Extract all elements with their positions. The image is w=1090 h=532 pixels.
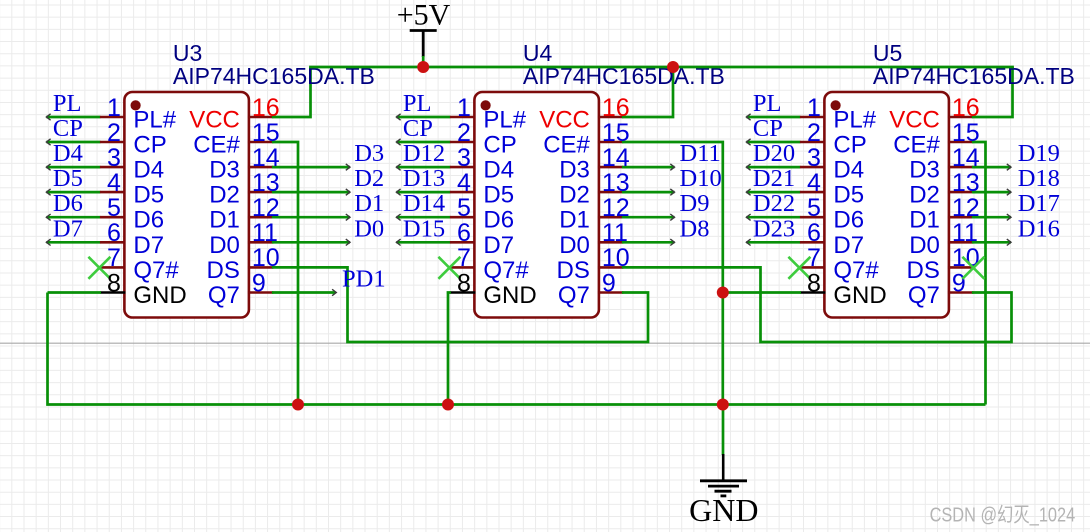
pin stub U4.12 <box>598 216 624 219</box>
pin stub U5.5 <box>800 216 826 219</box>
svg-text:D6: D6 <box>133 207 164 234</box>
pin stub U3.11 <box>248 241 274 244</box>
svg-text:D4: D4 <box>483 157 514 184</box>
svg-text:Q7: Q7 <box>208 282 240 309</box>
svg-text:15: 15 <box>952 119 980 147</box>
svg-text:VCC: VCC <box>889 107 940 134</box>
wire U3 CE# to ground rail <box>272 142 298 405</box>
pin stub U5.7 Q7# <box>800 266 826 269</box>
svg-text:D0: D0 <box>559 232 590 259</box>
svg-text:D2: D2 <box>909 182 940 209</box>
pin stub U3.3 <box>100 166 126 169</box>
svg-text:CSDN @幻灭_1024: CSDN @幻灭_1024 <box>930 503 1076 526</box>
pin stub U4.15 CE# <box>598 141 624 144</box>
svg-text:12: 12 <box>252 194 280 222</box>
pin stub U5.6 <box>800 241 826 244</box>
svg-text:4: 4 <box>807 169 821 197</box>
pin stub U4.10 DS <box>598 266 624 269</box>
svg-text:D3: D3 <box>209 157 240 184</box>
wire U5 pin 4 net D21 <box>746 191 800 194</box>
wire U5 pin 13 net D18 <box>972 191 1011 194</box>
no-connect X on U5 pin 10 DS <box>962 257 984 279</box>
wire U3 VCC to +5V bus riser <box>272 67 311 117</box>
pin stub U3.9 Q7 <box>248 291 274 294</box>
svg-text:14: 14 <box>952 144 980 172</box>
wire U4 pin 12 net D9 <box>622 216 675 219</box>
svg-text:D4: D4 <box>833 157 864 184</box>
junction U4 GND at ground bus <box>442 399 454 411</box>
junction U5 GND at U4 CE# rail <box>717 287 729 299</box>
wire U3 GND pin to left rail <box>48 291 102 294</box>
svg-text:13: 13 <box>952 169 980 197</box>
svg-text:D20: D20 <box>753 140 795 167</box>
svg-text:15: 15 <box>602 119 630 147</box>
pin stub U5.12 <box>948 216 974 219</box>
pin stub U5.13 <box>948 191 974 194</box>
svg-text:1: 1 <box>107 94 121 122</box>
svg-text:PL#: PL# <box>833 107 876 134</box>
svg-text:6: 6 <box>457 219 471 247</box>
svg-text:4: 4 <box>107 169 121 197</box>
svg-text:Q7: Q7 <box>908 282 940 309</box>
wire U5 pin 14 net D19 <box>972 166 1011 169</box>
svg-text:D2: D2 <box>354 165 384 192</box>
svg-text:D16: D16 <box>1018 215 1060 242</box>
svg-text:CP: CP <box>833 132 866 159</box>
svg-text:Q7#: Q7# <box>133 257 179 284</box>
junction U3 CE# at ground bus <box>292 399 304 411</box>
svg-text:CP: CP <box>483 132 516 159</box>
wire U3 pin 13 net D2 <box>272 191 350 194</box>
IC U5 body <box>824 92 949 318</box>
junction ground symbol at ground bus <box>717 399 729 411</box>
svg-text:13: 13 <box>252 169 280 197</box>
svg-text:D23: D23 <box>753 215 795 242</box>
svg-text:4: 4 <box>457 169 471 197</box>
wire U5 pin 1 net PL <box>746 116 800 119</box>
no-connect X on U5 pin 7 <box>788 257 810 279</box>
svg-text:D6: D6 <box>833 207 864 234</box>
pin stub U4.9 Q7 <box>598 291 624 294</box>
svg-text:D22: D22 <box>753 190 795 217</box>
pin stub U3.4 <box>100 191 126 194</box>
wire U4 pin 4 net D13 <box>396 191 450 194</box>
svg-text:9: 9 <box>602 269 616 297</box>
svg-text:14: 14 <box>602 144 630 172</box>
svg-text:7: 7 <box>457 244 471 272</box>
pin stub U4.11 <box>598 241 624 244</box>
svg-text:12: 12 <box>602 194 630 222</box>
pin stub U3.10 DS <box>248 266 274 269</box>
wire U4 GND pin elbow <box>447 293 451 405</box>
pin stub U5.1 <box>800 116 826 119</box>
svg-text:D9: D9 <box>680 190 710 217</box>
svg-text:7: 7 <box>807 244 821 272</box>
svg-text:8: 8 <box>107 269 121 297</box>
pin stub U5.3 <box>800 166 826 169</box>
wire U5 pin 6 net D23 <box>746 241 800 244</box>
pin stub U4.5 <box>450 216 476 219</box>
pin stub U5.4 <box>800 191 826 194</box>
svg-text:D4: D4 <box>53 140 83 167</box>
wire U3 pin 3 net D4 <box>46 166 100 169</box>
svg-text:CP: CP <box>53 115 83 142</box>
IC U3 body <box>124 92 248 318</box>
pin stub U3.7 Q7# <box>100 266 126 269</box>
svg-text:D5: D5 <box>833 182 864 209</box>
svg-text:9: 9 <box>952 269 966 297</box>
svg-text:D8: D8 <box>680 215 710 242</box>
wire U3.Q7 output PD1 <box>272 291 336 294</box>
svg-text:D19: D19 <box>1018 140 1060 167</box>
svg-text:PL#: PL# <box>133 107 176 134</box>
wire U4 pin 11 net D8 <box>622 241 675 244</box>
pin stub U4.6 <box>450 241 476 244</box>
pin stub U5.10 DS <box>948 266 974 269</box>
wire U5 CE# to ground rail <box>972 142 986 405</box>
svg-text:VCC: VCC <box>189 107 240 134</box>
wire U5 pin 5 net D22 <box>746 216 800 219</box>
svg-text:16: 16 <box>602 94 630 122</box>
svg-text:D10: D10 <box>680 165 722 192</box>
svg-text:5: 5 <box>457 194 471 222</box>
wire U3 pin 4 net D5 <box>46 191 100 194</box>
pin stub U5.2 <box>800 141 826 144</box>
wire U5 VCC to +5V bus riser <box>972 67 1013 117</box>
svg-text:D18: D18 <box>1018 165 1060 192</box>
wire U5 pin 2 net CP <box>746 141 800 144</box>
svg-text:11: 11 <box>252 219 278 247</box>
wire U3 pin 1 net PL <box>46 116 100 119</box>
svg-text:DS: DS <box>557 257 590 284</box>
svg-text:D11: D11 <box>680 140 721 167</box>
pin stub U5.9 Q7 <box>948 291 974 294</box>
ground symbol GND <box>700 405 747 496</box>
svg-text:7: 7 <box>107 244 121 272</box>
pin stub U3.16 VCC <box>248 116 274 119</box>
svg-text:D7: D7 <box>133 232 164 259</box>
pin stub U4.4 <box>450 191 476 194</box>
svg-text:D3: D3 <box>909 157 940 184</box>
svg-text:PL: PL <box>53 90 82 117</box>
pin stub U3.15 CE# <box>248 141 274 144</box>
svg-text:Q7#: Q7# <box>833 257 879 284</box>
wire U4 pin 14 net D11 <box>622 166 675 169</box>
wire U3 pin 14 net D3 <box>272 166 350 169</box>
svg-text:D0: D0 <box>909 232 940 259</box>
svg-text:3: 3 <box>457 144 471 172</box>
pin stub U4.3 <box>450 166 476 169</box>
svg-text:11: 11 <box>952 219 978 247</box>
svg-text:D13: D13 <box>403 165 445 192</box>
svg-text:1: 1 <box>807 94 821 122</box>
svg-text:D1: D1 <box>909 207 940 234</box>
wire U4 pin 6 net D15 <box>396 241 450 244</box>
svg-text:PL: PL <box>403 90 432 117</box>
GND bus wire <box>48 293 986 405</box>
pin stub U5.8 GND (black) <box>800 291 826 294</box>
svg-text:CE#: CE# <box>193 132 240 159</box>
no-connect X on U3 pin 7 <box>88 257 110 279</box>
svg-text:D5: D5 <box>133 182 164 209</box>
svg-text:D7: D7 <box>53 215 83 242</box>
pin stub U4.7 Q7# <box>450 266 476 269</box>
svg-text:CP: CP <box>133 132 166 159</box>
svg-text:16: 16 <box>952 94 980 122</box>
svg-text:D6: D6 <box>53 190 83 217</box>
wire U3 pin 2 net CP <box>46 141 100 144</box>
pin stub U4.2 <box>450 141 476 144</box>
svg-text:15: 15 <box>252 119 280 147</box>
svg-text:D0: D0 <box>354 215 384 242</box>
svg-text:8: 8 <box>807 269 821 297</box>
pin stub U3.5 <box>100 216 126 219</box>
svg-text:D2: D2 <box>209 182 240 209</box>
svg-text:16: 16 <box>252 94 280 122</box>
IC U3 pin-1 marker dot <box>131 100 141 110</box>
svg-text:PD1: PD1 <box>342 266 386 293</box>
svg-text:GND: GND <box>689 492 758 528</box>
svg-text:10: 10 <box>952 244 980 272</box>
wire cascade U3.DS to U4.Q7 <box>272 267 648 342</box>
svg-text:D14: D14 <box>403 190 445 217</box>
wire U3 pin 11 net D0 <box>272 241 350 244</box>
svg-text:D17: D17 <box>1018 190 1060 217</box>
svg-text:D5: D5 <box>53 165 83 192</box>
svg-text:VCC: VCC <box>539 107 590 134</box>
svg-text:D7: D7 <box>483 232 514 259</box>
svg-text:D3: D3 <box>559 157 590 184</box>
pin stub U5.16 VCC <box>948 116 974 119</box>
svg-text:GND: GND <box>133 282 186 309</box>
svg-text:6: 6 <box>107 219 121 247</box>
IC U4 pin-1 marker dot <box>481 100 491 110</box>
svg-text:D15: D15 <box>403 215 445 242</box>
svg-text:3: 3 <box>107 144 121 172</box>
svg-text:D4: D4 <box>133 157 164 184</box>
pin stub U5.11 <box>948 241 974 244</box>
svg-text:CP: CP <box>403 115 433 142</box>
svg-text:D1: D1 <box>354 190 384 217</box>
pin stub U3.2 <box>100 141 126 144</box>
pin stub U4.13 <box>598 191 624 194</box>
svg-text:2: 2 <box>107 119 121 147</box>
wire U4 pin 5 net D14 <box>396 216 450 219</box>
svg-text:GND: GND <box>833 282 886 309</box>
svg-text:DS: DS <box>907 257 940 284</box>
pin stub U5.15 CE# <box>948 141 974 144</box>
svg-text:2: 2 <box>807 119 821 147</box>
wire U4 CE# to ground rail <box>622 142 723 405</box>
svg-text:D12: D12 <box>403 140 445 167</box>
svg-text:Q7: Q7 <box>558 282 590 309</box>
pin stub U3.8 GND (black) <box>100 291 126 294</box>
svg-text:GND: GND <box>483 282 536 309</box>
wire U5 pin 12 net D17 <box>972 216 1011 219</box>
wire U3 pin 6 net D7 <box>46 241 100 244</box>
svg-text:8: 8 <box>457 269 471 297</box>
pin stub U3.6 <box>100 241 126 244</box>
svg-text:5: 5 <box>807 194 821 222</box>
svg-text:12: 12 <box>952 194 980 222</box>
wire U3 pin 12 net D1 <box>272 216 350 219</box>
svg-text:6: 6 <box>807 219 821 247</box>
pin stub U4.16 VCC <box>598 116 624 119</box>
svg-text:D0: D0 <box>209 232 240 259</box>
canvas axis line <box>0 342 1090 344</box>
pin stub U4.14 <box>598 166 624 169</box>
svg-text:D5: D5 <box>483 182 514 209</box>
svg-text:D6: D6 <box>483 207 514 234</box>
wire U4 pin 1 net PL <box>396 116 450 119</box>
svg-text:Q7#: Q7# <box>483 257 529 284</box>
wire U5 pin 3 net D20 <box>746 166 800 169</box>
svg-text:13: 13 <box>602 169 630 197</box>
svg-text:PL#: PL# <box>483 107 526 134</box>
no-connect X on U4 pin 7 <box>438 257 460 279</box>
pin stub U3.1 <box>100 116 126 119</box>
junction +5V at bus <box>417 61 429 73</box>
svg-text:CE#: CE# <box>893 132 940 159</box>
svg-text:D3: D3 <box>354 140 384 167</box>
pin stub U3.14 <box>248 166 274 169</box>
svg-text:D1: D1 <box>209 207 240 234</box>
wire U4 pin 2 net CP <box>396 141 450 144</box>
svg-text:9: 9 <box>252 269 266 297</box>
svg-text:D2: D2 <box>559 182 590 209</box>
wire U3 pin 5 net D6 <box>46 216 100 219</box>
pin stub U4.8 GND (black) <box>450 291 476 294</box>
svg-text:11: 11 <box>602 219 628 247</box>
svg-text:D1: D1 <box>559 207 590 234</box>
pin stub U4.1 <box>450 116 476 119</box>
wire U5 pin 11 net D16 <box>972 241 1011 244</box>
svg-text:DS: DS <box>207 257 240 284</box>
svg-text:14: 14 <box>252 144 280 172</box>
svg-text:3: 3 <box>807 144 821 172</box>
IC U5 pin-1 marker dot <box>831 100 841 110</box>
svg-text:CP: CP <box>753 115 783 142</box>
wire cascade U4.DS to U5.Q7 <box>622 267 1012 342</box>
junction U4 VCC riser at bus <box>667 61 679 73</box>
wire U5 GND pin to U4 CE# rail <box>723 291 801 294</box>
svg-text:D7: D7 <box>833 232 864 259</box>
svg-text:CE#: CE# <box>543 132 590 159</box>
svg-text:5: 5 <box>107 194 121 222</box>
IC U4 body <box>474 92 599 318</box>
svg-text:+5V: +5V <box>397 0 451 32</box>
pin stub U3.12 <box>248 216 274 219</box>
+5V bus wire <box>309 66 1014 69</box>
svg-text:2: 2 <box>457 119 471 147</box>
svg-text:1: 1 <box>457 94 471 122</box>
wire U4 pin 13 net D10 <box>622 191 675 194</box>
pin stub U3.13 <box>248 191 274 194</box>
svg-text:PL: PL <box>753 90 782 117</box>
svg-text:D21: D21 <box>753 165 795 192</box>
pin stub U5.14 <box>948 166 974 169</box>
wire U4 pin 3 net D12 <box>396 166 450 169</box>
wire U4 VCC to +5V bus riser <box>622 67 673 117</box>
power symbol +5V <box>410 31 437 68</box>
